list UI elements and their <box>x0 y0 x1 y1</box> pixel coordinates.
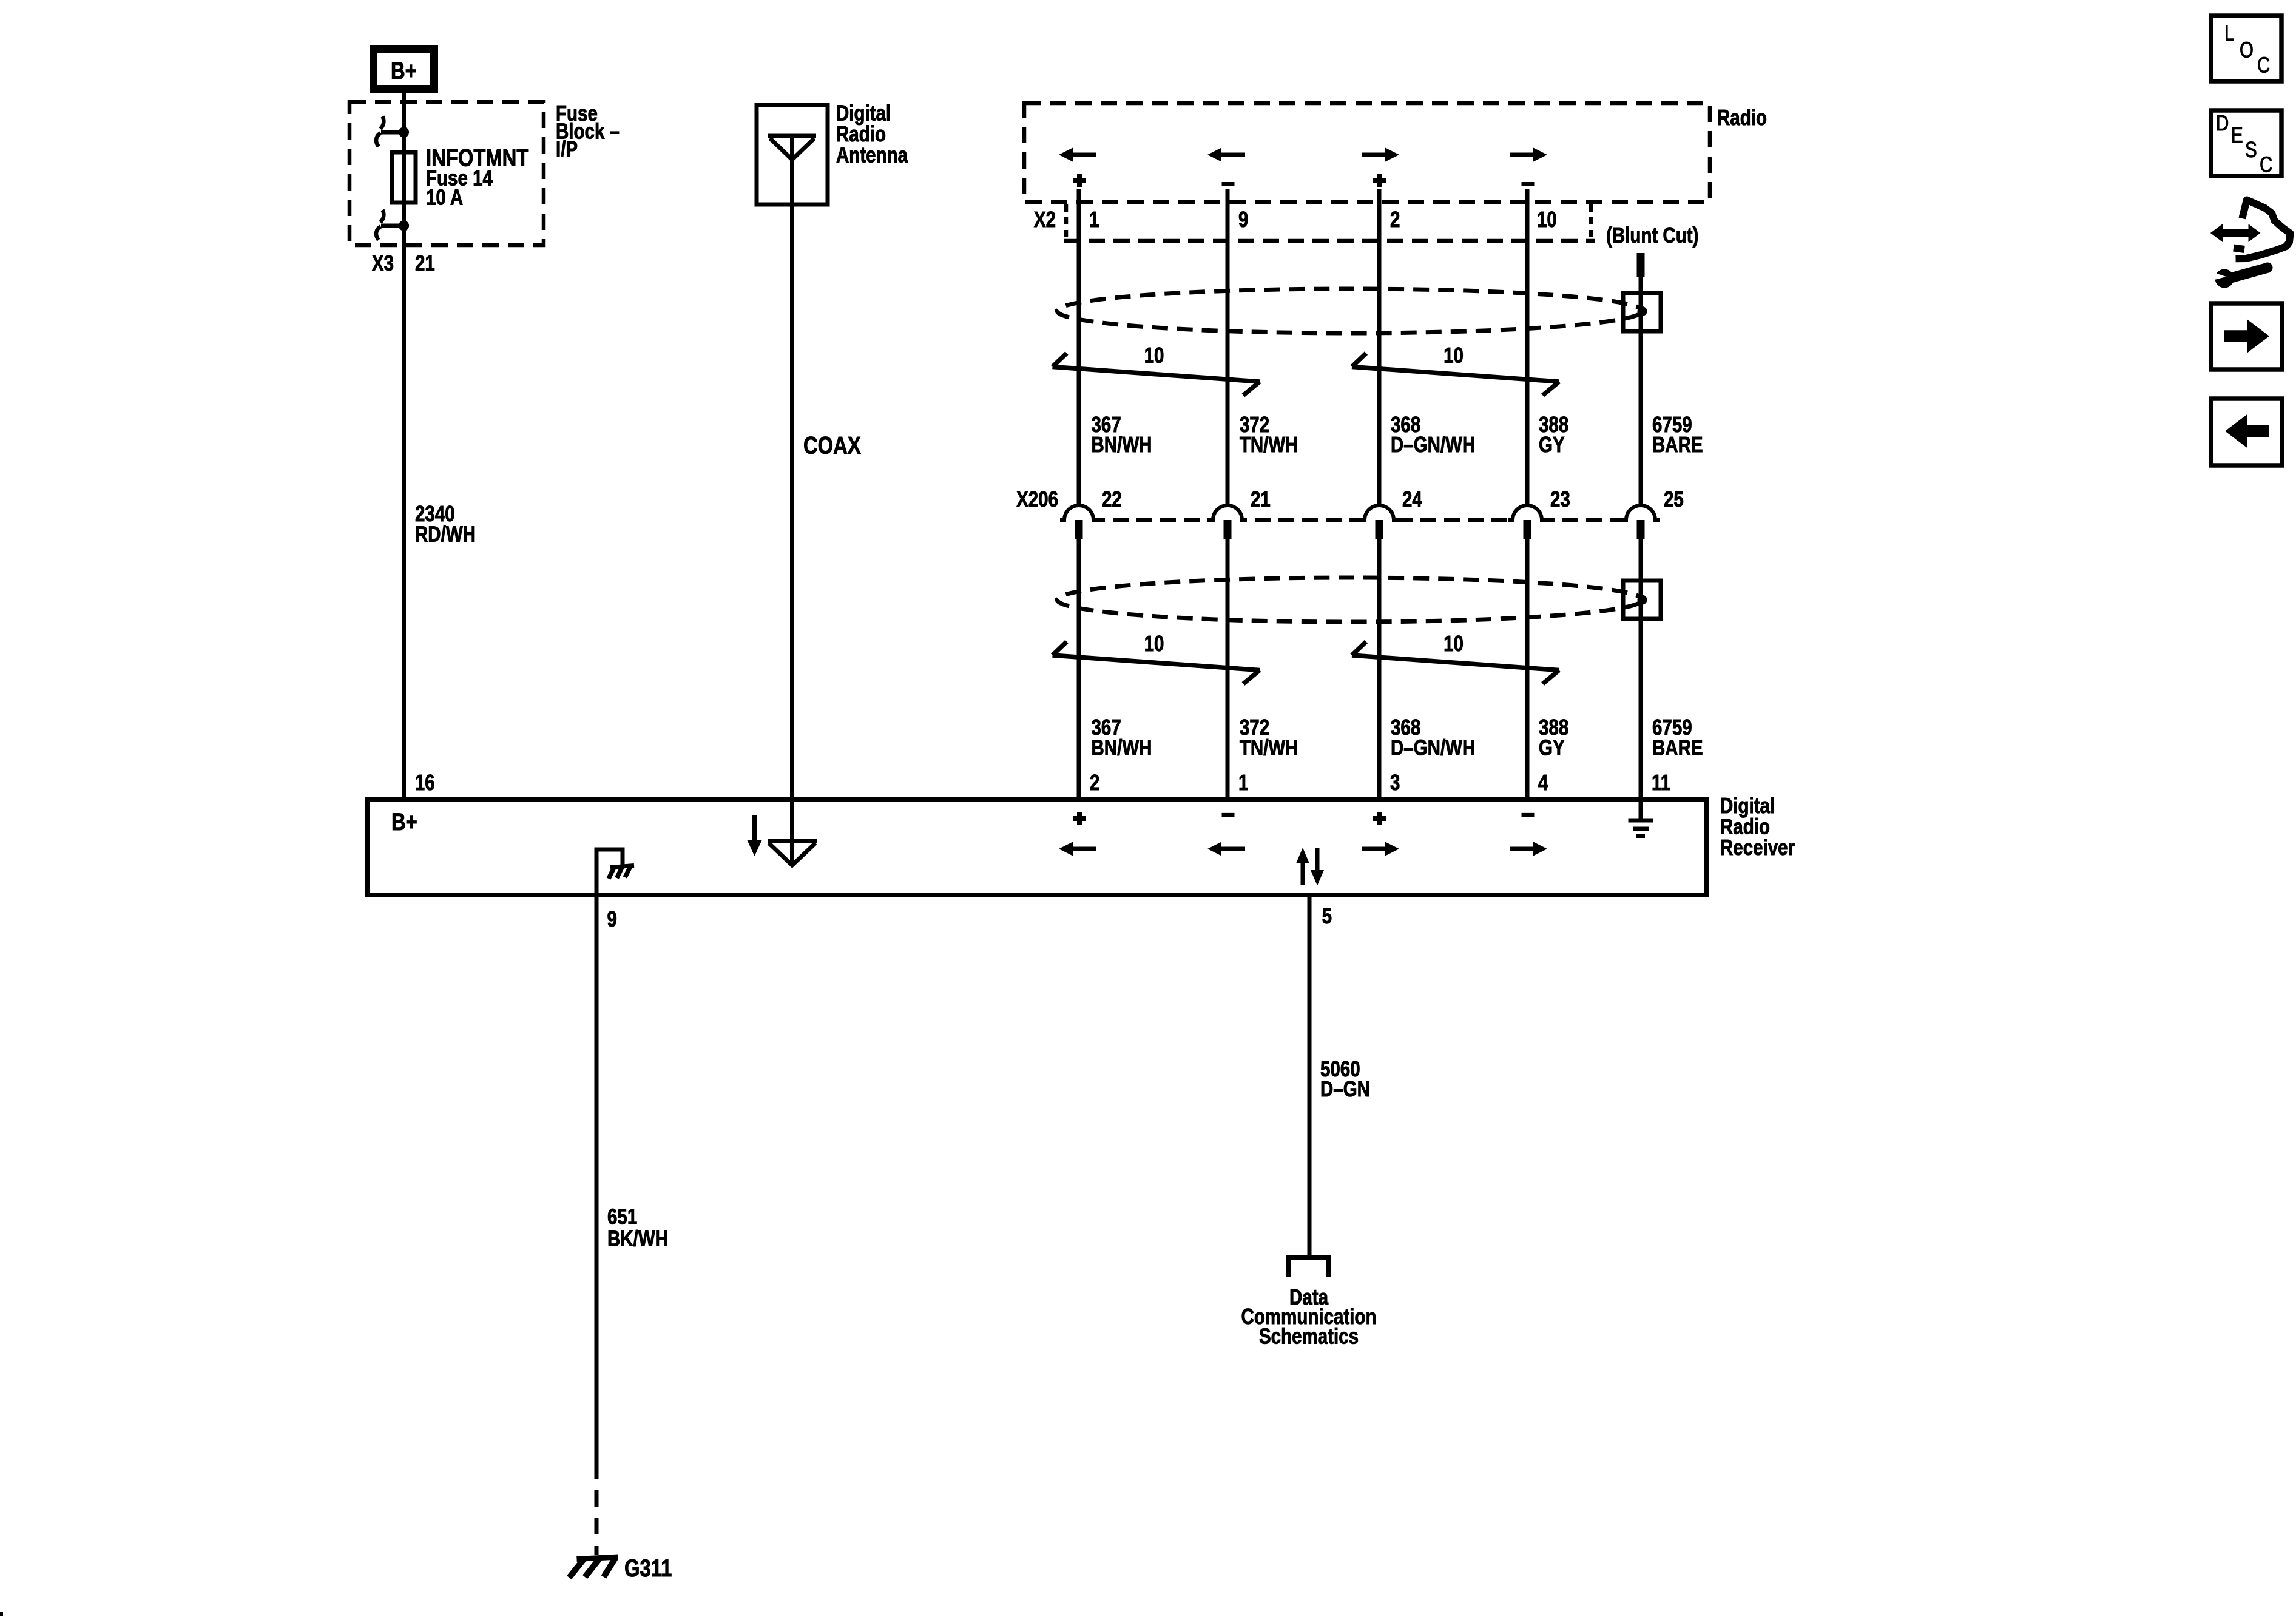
wire 5060 D-GN <box>1308 895 1312 1257</box>
wire from radio pin 2 to X206 <box>1377 189 1382 506</box>
svg-text:2: 2 <box>1090 770 1099 794</box>
twist mark pair2 lower <box>1352 642 1366 656</box>
svg-text:B+: B+ <box>391 57 417 84</box>
digital radio receiver box <box>368 799 1706 895</box>
svg-text:D–GN: D–GN <box>1320 1076 1370 1101</box>
plus ch1 <box>1073 178 1086 183</box>
svg-text:1: 1 <box>1089 207 1099 231</box>
svg-text:TN/WH: TN/WH <box>1240 432 1298 456</box>
shield splice box upper <box>1623 293 1661 331</box>
wire dashed to G311 <box>595 1479 599 1555</box>
svg-text:GY: GY <box>1539 432 1565 456</box>
svg-text:10: 10 <box>1537 207 1557 231</box>
svg-text:RD/WH: RD/WH <box>415 522 476 546</box>
double arrow <box>2221 229 2250 237</box>
receiver serial data up/down arrows <box>1301 862 1305 885</box>
wire from X206 to receiver pin 3 <box>1377 539 1382 800</box>
minus ch4 <box>1522 182 1535 186</box>
connector clip top (fuse block in) <box>381 130 404 135</box>
svg-text:E: E <box>2231 123 2243 147</box>
plus pin3 <box>1373 816 1386 821</box>
wrench <box>2212 263 2273 288</box>
icon forward arrow box <box>2211 303 2282 370</box>
wire 651 BK/WH <box>595 895 599 1479</box>
svg-text:B+: B+ <box>391 808 417 836</box>
svg-text:G311: G311 <box>624 1555 672 1582</box>
arrow right ch3 <box>1362 153 1385 157</box>
receiver antenna down arrow <box>752 815 757 843</box>
plus ch3 <box>1373 178 1386 183</box>
svg-text:10: 10 <box>1144 343 1164 367</box>
svg-text:651: 651 <box>607 1204 637 1229</box>
svg-text:21: 21 <box>415 251 435 275</box>
X206 terminal 22 <box>1064 516 1093 524</box>
arrow right pin3 <box>1362 847 1385 851</box>
wire from radio pin 10 to X206 <box>1525 189 1530 506</box>
svg-text:X2: X2 <box>1034 207 1056 231</box>
svg-text:21: 21 <box>1251 487 1271 511</box>
svg-text:4: 4 <box>1538 770 1548 794</box>
connector X206 dashed line <box>1065 518 1655 522</box>
minus pin1 <box>1222 813 1235 817</box>
X206 terminal 24 <box>1365 516 1394 524</box>
radio dashed box <box>1024 103 1710 202</box>
svg-text:L: L <box>2224 21 2234 45</box>
icon DESC box <box>2211 110 2281 176</box>
X206 terminal 23 <box>1513 516 1542 524</box>
svg-text:5: 5 <box>1322 903 1332 928</box>
svg-text:Antenna: Antenna <box>836 143 908 167</box>
svg-text:3: 3 <box>1390 770 1400 794</box>
svg-text:X206: X206 <box>1016 487 1058 511</box>
plus pin2 <box>1073 816 1086 821</box>
arrow right ch4 <box>1510 153 1533 157</box>
svg-text:O: O <box>2240 38 2254 62</box>
svg-text:BK/WH: BK/WH <box>607 1226 668 1251</box>
B+ power symbol box <box>374 49 434 89</box>
arrow left ch1 <box>1073 153 1096 157</box>
arrow left pin2 <box>1073 847 1096 851</box>
digital radio antenna box <box>757 105 828 204</box>
svg-text:10 A: 10 A <box>426 185 463 209</box>
svg-text:10: 10 <box>1144 631 1164 655</box>
svg-text:Radio: Radio <box>1717 105 1767 129</box>
svg-text:10: 10 <box>1443 631 1464 655</box>
svg-text:BARE: BARE <box>1652 432 1703 456</box>
svg-text:X3: X3 <box>372 251 394 275</box>
minus pin4 <box>1522 813 1535 817</box>
off-page connector bracket <box>1289 1258 1328 1277</box>
svg-text:24: 24 <box>1402 487 1422 511</box>
wire: B+ feed 2340 RD/WH <box>402 93 406 800</box>
wire: COAX antenna lead <box>790 136 794 866</box>
svg-text:22: 22 <box>1102 487 1122 511</box>
svg-text:Receiver: Receiver <box>1720 835 1795 859</box>
icon back arrow box <box>2211 399 2282 465</box>
twist mark pair2 upper <box>1352 353 1366 367</box>
twisted/shield ellipse lower <box>1057 578 1643 622</box>
svg-text:D–GN/WH: D–GN/WH <box>1391 432 1475 456</box>
wire from X206 to receiver pin 1 <box>1226 539 1230 800</box>
svg-text:S: S <box>2245 137 2257 161</box>
svg-text:COAX: COAX <box>803 431 861 459</box>
connector clip bottom (fuse block out) <box>381 224 404 228</box>
wire bare drain lower <box>1639 539 1643 819</box>
ground G311 symbol <box>577 1557 618 1559</box>
wire from radio pin 9 to X206 <box>1226 189 1230 506</box>
svg-text:C: C <box>2257 53 2270 77</box>
svg-text:BN/WH: BN/WH <box>1092 432 1152 456</box>
svg-text:BARE: BARE <box>1652 735 1703 760</box>
receiver ground symbol pin11 <box>1629 819 1653 823</box>
arrow left pin1 <box>1221 847 1245 851</box>
shield splice box lower <box>1623 581 1661 619</box>
svg-text:(Blunt Cut): (Blunt Cut) <box>1606 223 1698 247</box>
fuse INFOTMNT Fuse 14 10A <box>392 152 416 203</box>
twist mark pair1 upper <box>1053 353 1067 367</box>
wire from X206 to receiver pin 2 <box>1077 539 1081 800</box>
svg-text:TN/WH: TN/WH <box>1240 735 1298 760</box>
svg-text:BN/WH: BN/WH <box>1092 735 1152 760</box>
svg-text:11: 11 <box>1652 770 1670 794</box>
receiver antenna symbol <box>768 839 817 843</box>
wire from X206 to receiver pin 4 <box>1525 539 1530 800</box>
page mark dot <box>0 1612 3 1616</box>
arrow left ch2 <box>1221 153 1245 157</box>
X206 terminal 25 <box>1626 516 1655 524</box>
svg-text:9: 9 <box>1238 207 1248 231</box>
connector X2 strip <box>1064 204 1069 238</box>
blunt cut stub <box>1637 253 1645 277</box>
svg-text:C: C <box>2260 152 2272 177</box>
svg-text:16: 16 <box>415 770 435 794</box>
wire from radio pin 1 to X206 <box>1077 189 1081 506</box>
svg-text:1: 1 <box>1238 770 1248 794</box>
twisted/shield ellipse upper <box>1057 289 1643 333</box>
X206 terminal 21 <box>1213 516 1242 524</box>
svg-text:2: 2 <box>1390 207 1400 231</box>
svg-text:GY: GY <box>1539 735 1565 760</box>
arrow right pin4 <box>1510 847 1533 851</box>
svg-text:D: D <box>2216 110 2229 135</box>
twist mark pair1 lower <box>1053 642 1067 656</box>
icon harness connector with arrow and wrench <box>2234 200 2291 259</box>
wire bare drain upper <box>1639 276 1643 506</box>
svg-text:9: 9 <box>607 906 617 931</box>
svg-text:Schematics: Schematics <box>1259 1324 1359 1348</box>
svg-text:D–GN/WH: D–GN/WH <box>1391 735 1475 760</box>
svg-text:25: 25 <box>1664 487 1684 511</box>
svg-text:I/P: I/P <box>556 137 578 161</box>
antenna symbol <box>768 134 816 138</box>
receiver internal chassis ground pin9 <box>596 849 623 895</box>
fuse block dashed box <box>349 102 544 245</box>
icon LOC box <box>2211 16 2281 81</box>
minus ch2 <box>1222 182 1235 186</box>
svg-text:10: 10 <box>1443 343 1464 367</box>
svg-text:23: 23 <box>1550 487 1570 511</box>
